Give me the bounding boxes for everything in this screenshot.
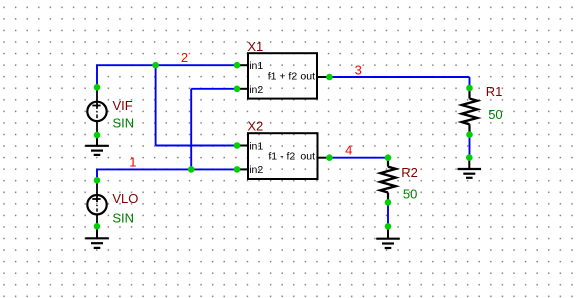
svg-text:X1: X1 — [247, 39, 263, 54]
node dot R1 top — [466, 85, 473, 92]
svg-text:1: 1 — [129, 154, 136, 169]
node dot X1 in1 — [234, 62, 241, 69]
node dot VIF top — [94, 84, 101, 91]
svg-text:in2: in2 — [249, 164, 263, 176]
svg-text:out: out — [300, 70, 315, 82]
svg-text:SIN: SIN — [113, 116, 135, 131]
voltage source VIF — [87, 87, 106, 135]
svg-text:R1: R1 — [486, 84, 503, 99]
svg-text:50: 50 — [403, 186, 417, 201]
node dot R2 bottom — [385, 199, 392, 206]
node dot VLO bottom — [94, 223, 101, 230]
wire R1 bottom to ground node — [469, 135, 471, 158]
svg-text:VIF: VIF — [113, 98, 133, 113]
box X1 — [237, 53, 329, 98]
ground under VLO — [85, 226, 109, 248]
svg-text:2: 2 — [181, 50, 188, 65]
svg-text:in2: in2 — [249, 84, 263, 96]
wire vertical X1 in2 down to net1 — [190, 89, 192, 170]
wire net3 horizontal from X1 out — [329, 76, 469, 78]
node dot R1 ground — [466, 154, 473, 161]
wire branch horizontal to X2 in1 — [156, 145, 237, 147]
svg-text:4: 4 — [345, 143, 352, 158]
svg-text:SIN: SIN — [112, 211, 134, 226]
box X2 — [237, 133, 329, 179]
resistor R1 — [462, 88, 477, 135]
svg-text:VLO: VLO — [112, 191, 138, 206]
ground under R2 — [376, 226, 400, 248]
node dot R2 ground — [385, 223, 392, 230]
node dot X2 out — [326, 154, 333, 161]
node dot R2 top junction — [385, 154, 392, 161]
wire R2 bottom to ground node — [387, 202, 389, 226]
wire net2 branch vertical to X2 in1 level — [155, 65, 157, 145]
wire net1 horizontal — [96, 168, 237, 170]
ground under VIF — [85, 135, 109, 155]
wire net2 vertical from VIF top — [96, 65, 98, 87]
node dot junction net2 — [152, 62, 159, 69]
node dot VIF bottom — [94, 132, 101, 139]
ground under R1 — [458, 158, 482, 178]
voltage source VLO — [87, 180, 106, 226]
node dot R1 bottom — [466, 131, 473, 138]
svg-text:in1: in1 — [249, 141, 263, 153]
node dot X1 in2 — [234, 86, 241, 93]
svg-text:50: 50 — [488, 107, 502, 122]
resistor R2 — [380, 158, 395, 203]
svg-text:X2: X2 — [247, 118, 263, 133]
wire net2 horizontal to X1 in1 — [96, 64, 237, 66]
svg-text:3: 3 — [355, 63, 362, 78]
wire net4 horizontal from X2 out — [329, 157, 388, 159]
svg-text:f1 + f2: f1 + f2 — [268, 70, 298, 82]
node dot VLO top — [94, 177, 101, 184]
svg-text:in1: in1 — [249, 60, 263, 72]
svg-text:out: out — [300, 150, 315, 162]
node dot X2 in2 — [234, 166, 241, 173]
wire X1 in2 horizontal — [191, 88, 237, 90]
node dot X2 in1 — [234, 142, 241, 149]
node dot junction net1 — [188, 166, 195, 173]
svg-text:R2: R2 — [401, 165, 418, 180]
svg-text:f1 - f2: f1 - f2 — [268, 150, 295, 162]
wire net1 vertical to VLO top — [96, 169, 98, 180]
wire net3 vertical to R1 — [469, 77, 471, 88]
node dot X1 out — [326, 74, 333, 81]
